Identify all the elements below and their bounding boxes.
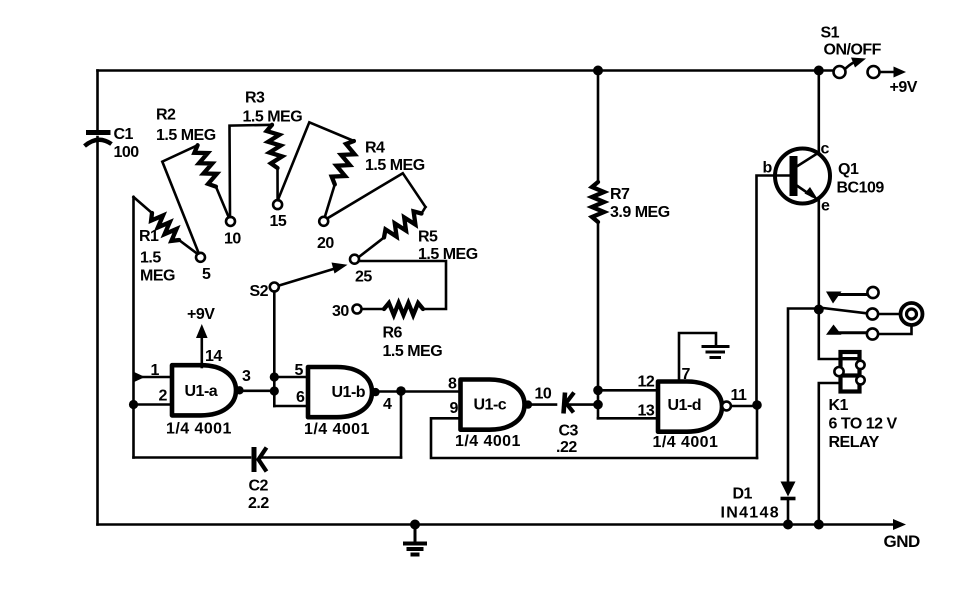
- wire pin11 feedback down: [756, 405, 759, 458]
- pin 8 label: [448, 376, 457, 393]
- svg-text:RELAY: RELAY: [829, 434, 880, 451]
- svg-text:R3: R3: [245, 90, 265, 107]
- svg-text:D1: D1: [733, 486, 753, 503]
- svg-text:4: 4: [383, 396, 392, 413]
- svg-text:100: 100: [114, 144, 140, 161]
- svg-text:5: 5: [295, 362, 304, 379]
- svg-text:1.5 MEG: 1.5 MEG: [156, 127, 216, 144]
- svg-text:U1-c: U1-c: [474, 397, 507, 414]
- pin 3 output wire: [242, 368, 274, 391]
- node junction top rail / R7: [593, 66, 603, 76]
- pin 6 wire: [274, 389, 308, 406]
- svg-text:C3: C3: [559, 423, 579, 440]
- svg-text:3: 3: [242, 368, 251, 385]
- wire C2 feedback horizontal: [134, 456, 402, 459]
- wire top +9V rail: [98, 69, 835, 72]
- pin 5 wire: [274, 362, 308, 379]
- pin 1 wire: [133, 362, 172, 383]
- svg-text:12: 12: [638, 374, 655, 391]
- op-amp gate U1-d: [653, 382, 731, 452]
- svg-text:1/4 4001: 1/4 4001: [653, 434, 719, 451]
- svg-text:1.5 MEG: 1.5 MEG: [383, 343, 443, 360]
- svg-text:1/4 4001: 1/4 4001: [455, 433, 521, 450]
- resistor R4: [278, 122, 425, 217]
- svg-text:MEG: MEG: [140, 268, 175, 285]
- svg-text:GND: GND: [884, 532, 921, 551]
- wire S2 to gate input: [273, 292, 276, 378]
- ground (pin 7): [703, 347, 728, 358]
- resistor R7: [592, 71, 670, 391]
- node switch contact 10: [224, 217, 241, 248]
- svg-text:1.5 MEG: 1.5 MEG: [243, 109, 303, 126]
- svg-text:C1: C1: [114, 126, 134, 143]
- svg-text:10: 10: [535, 386, 552, 403]
- pin 11 output wire: [731, 387, 762, 410]
- svg-text:14: 14: [205, 348, 222, 365]
- pin 9 wire: [431, 400, 757, 458]
- svg-text:8: 8: [448, 376, 457, 393]
- svg-text:c: c: [821, 141, 830, 158]
- wire pin4 to C2 feedback: [400, 391, 403, 458]
- node emitter/relay junction: [814, 305, 824, 315]
- pin 2 wire: [129, 388, 172, 410]
- svg-text:10: 10: [224, 231, 241, 248]
- svg-text:1.5: 1.5: [140, 250, 161, 267]
- switch S2 wiper: [250, 263, 348, 301]
- relay contact middle: [867, 308, 900, 319]
- svg-text:1: 1: [151, 362, 160, 379]
- op-amp gate U1-c: [455, 380, 532, 451]
- resistor R1: [134, 197, 198, 285]
- output jack: [879, 303, 923, 334]
- svg-text:3.9 MEG: 3.9 MEG: [610, 204, 670, 221]
- svg-text:9: 9: [450, 400, 459, 417]
- svg-text:R6: R6: [383, 325, 403, 342]
- relay contact common wire: [821, 308, 867, 314]
- svg-text:7: 7: [682, 366, 691, 383]
- pin 10 output wire: [532, 386, 557, 405]
- svg-text:R5: R5: [418, 229, 438, 246]
- pin 12 wire: [598, 374, 658, 391]
- node switch contact 5: [196, 253, 211, 283]
- switch S1: [821, 25, 882, 79]
- svg-text:R4: R4: [365, 140, 385, 157]
- capacitor C1: [85, 126, 140, 161]
- wire Q1 emitter: [817, 201, 820, 310]
- resistor R5: [328, 173, 478, 263]
- svg-text:S1: S1: [821, 25, 840, 42]
- svg-text:20: 20: [317, 235, 334, 252]
- svg-text:K1: K1: [829, 397, 849, 414]
- op-amp gate U1-a: [166, 365, 244, 437]
- wire bottom ground rail: [98, 523, 820, 526]
- svg-text:+9V: +9V: [890, 79, 918, 96]
- wire left rail upper (to C1): [96, 71, 99, 131]
- svg-text:25: 25: [355, 269, 372, 286]
- wire R1/C2 vertical (left input net): [132, 197, 135, 458]
- svg-text:15: 15: [270, 213, 287, 230]
- op-amp gate U1-b: [304, 367, 380, 438]
- svg-text:C2: C2: [249, 478, 269, 495]
- wire relay junction to D1: [788, 309, 815, 482]
- svg-text:1.5 MEG: 1.5 MEG: [365, 157, 425, 174]
- svg-text:U1-b: U1-b: [332, 384, 366, 401]
- wire Q1 collector: [814, 66, 824, 153]
- transistor Q1: [763, 141, 885, 215]
- wire emitter to coil top: [819, 310, 840, 360]
- svg-text:R2: R2: [156, 107, 176, 124]
- svg-text:U1-a: U1-a: [185, 383, 218, 400]
- svg-text:e: e: [821, 198, 830, 215]
- resistor R6: [359, 261, 446, 360]
- svg-text:6 TO 12 V: 6 TO 12 V: [829, 416, 898, 433]
- svg-text:2: 2: [159, 388, 168, 405]
- svg-text:R1: R1: [139, 228, 159, 245]
- svg-text:+9V: +9V: [187, 306, 215, 323]
- svg-text:30: 30: [332, 303, 349, 320]
- capacitor C3: [556, 393, 598, 457]
- svg-text:b: b: [763, 160, 773, 177]
- svg-text:.22: .22: [556, 439, 577, 456]
- svg-text:R7: R7: [610, 186, 630, 203]
- resistor R2: [156, 107, 229, 254]
- svg-text:Q1: Q1: [838, 161, 859, 178]
- power +9V (pin 14): [187, 306, 222, 367]
- svg-text:6: 6: [296, 389, 305, 406]
- svg-text:2.2: 2.2: [248, 495, 269, 512]
- wire GND arrow: [819, 519, 920, 551]
- node switch contact 15: [270, 200, 287, 230]
- ground (bottom rail symbol): [403, 520, 427, 555]
- wire coil bottom to ground rail: [814, 383, 840, 530]
- node switch contact 30: [332, 303, 362, 320]
- resistor R3: [230, 90, 303, 218]
- svg-text:13: 13: [638, 403, 655, 420]
- wire left rail lower (C1 to ground rail): [96, 137, 99, 525]
- pin 4 output wire: [379, 386, 461, 413]
- relay contact bottom: [826, 325, 878, 340]
- node U1-b input junctions: [270, 372, 279, 406]
- pin 7 ground wire: [679, 333, 716, 383]
- wire pin11 to Q1 base: [757, 176, 791, 406]
- svg-text:U1-d: U1-d: [668, 397, 702, 414]
- wire +9V arrow: [880, 67, 918, 97]
- svg-text:5: 5: [202, 266, 211, 283]
- svg-text:1/4 4001: 1/4 4001: [304, 421, 370, 438]
- node switch contact 20: [317, 217, 334, 252]
- svg-text:ON/OFF: ON/OFF: [824, 42, 882, 59]
- pin 13 wire: [598, 403, 658, 420]
- relay contact top: [826, 287, 879, 304]
- svg-text:S2: S2: [250, 283, 269, 300]
- svg-text:1/4 4001: 1/4 4001: [166, 421, 232, 438]
- node switch contact 25: [350, 255, 372, 286]
- relay coil K1: [829, 352, 898, 451]
- svg-text:BC109: BC109: [837, 180, 885, 197]
- svg-text:11: 11: [731, 387, 748, 404]
- capacitor C2: [248, 447, 269, 512]
- diode D1: [721, 482, 796, 530]
- svg-text:IN4148: IN4148: [721, 505, 780, 522]
- node junction R7/C3/pins 12-13: [593, 386, 603, 419]
